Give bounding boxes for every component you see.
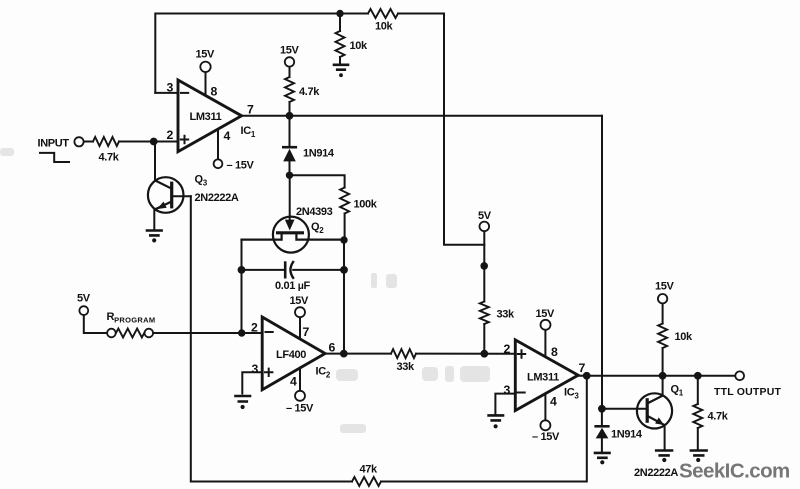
svg-text:6: 6 (329, 341, 336, 355)
terminal 5V Rprogram (79, 306, 88, 315)
input step waveform symbol (40, 153, 69, 162)
node IC3 out (583, 372, 591, 380)
node top 10k tap (336, 10, 343, 17)
resistor 4.7k input (93, 137, 119, 146)
svg-text:SeekIC.com: SeekIC.com (679, 460, 790, 483)
svg-text:2N2222A: 2N2222A (634, 467, 678, 479)
terminal Rprogram right (145, 329, 154, 338)
node Rprogram pin2 (238, 329, 245, 336)
wire Q1 collector riser (662, 376, 664, 396)
transistor Q1 2N2222A (637, 393, 672, 428)
wire right 4.7k to ground (697, 376, 699, 450)
wire IC2 pin3 to ground (242, 372, 262, 393)
svg-text:10k: 10k (675, 331, 694, 343)
IC3 pin8 supply lead (544, 330, 546, 357)
resistor 10k top horizontal (368, 9, 398, 18)
wire top 10k segment to right corner (340, 13, 444, 15)
wire Q3 base lead (172, 195, 191, 197)
plus sign IC3 (518, 350, 525, 357)
resistor 4.7k right (693, 404, 702, 428)
terminal 15V 10k right (658, 294, 667, 303)
terminal -15V IC1 (214, 159, 223, 168)
plus sign IC2 (265, 369, 272, 376)
terminal Rprogram left (107, 329, 116, 338)
resistor 33k horizontal (391, 349, 416, 358)
wire right 1N914 to ground (601, 409, 603, 452)
resistor 100k (340, 188, 349, 214)
resistor 10k right pullup (658, 324, 667, 348)
wire input to IC1 pin2 (84, 141, 178, 143)
resistor 47k bottom (352, 477, 381, 486)
wire 5V node down through 33k to pin2 node (483, 231, 485, 354)
IC1 pin4 supply lead (217, 129, 219, 159)
wire IC2 output to 33k to IC3 pin2 (325, 353, 515, 355)
svg-text:4.7k: 4.7k (99, 152, 120, 164)
svg-text:7: 7 (247, 103, 254, 117)
svg-text:– 15V: – 15V (286, 403, 314, 415)
svg-text:33k: 33k (497, 309, 516, 321)
svg-text:2: 2 (504, 342, 511, 356)
svg-text:4.7k: 4.7k (708, 411, 729, 423)
svg-text:2N4393: 2N4393 (296, 206, 333, 218)
node below diode (286, 172, 293, 179)
IC3 pin4 supply lead (544, 394, 546, 421)
resistor 33k vertical (480, 302, 489, 325)
ground Q3 (147, 231, 162, 236)
node cap left (238, 266, 246, 274)
svg-text:4: 4 (550, 395, 557, 409)
svg-text:4: 4 (290, 375, 297, 389)
ground dots (339, 73, 343, 77)
svg-text:5V: 5V (77, 293, 91, 305)
svg-text:2N2222A: 2N2222A (195, 192, 239, 204)
transistor Q3 2N2222A (148, 177, 184, 213)
minus sign IC3 (518, 392, 525, 394)
wire right 10k pullup (662, 303, 664, 375)
wire Q3 collector drop (154, 142, 156, 181)
wire diode 1N914 branch (289, 116, 291, 176)
wire 4.7k pullup branch (289, 67, 291, 116)
terminal 15V 4.7k (285, 57, 294, 66)
svg-text:LM311: LM311 (527, 372, 559, 384)
svg-text:47k: 47k (360, 464, 379, 476)
wire IC3 pin3 to ground (495, 394, 515, 414)
wire Q1 emitter to ground (664, 425, 666, 449)
node IC3 pin2 (480, 350, 488, 358)
svg-text:15V: 15V (655, 281, 675, 293)
svg-text:100k: 100k (354, 199, 378, 211)
plus sign IC1 (181, 136, 188, 143)
svg-text:RPROGRAM: RPROGRAM (107, 311, 156, 325)
IC2 pin4 supply lead (299, 368, 301, 391)
transistor Q2 2N4393 JFET (242, 217, 344, 253)
ground Q1 (656, 451, 672, 456)
minus sign IC2 (266, 331, 273, 333)
svg-text:4: 4 (224, 129, 231, 143)
svg-text:– 15V: – 15V (227, 160, 255, 172)
wire 10k shunt down (339, 14, 341, 65)
terminal 15V IC3 (541, 320, 551, 330)
svg-text:33k: 33k (397, 361, 416, 373)
op-amp U IC3 LM311 triangle (515, 340, 578, 411)
node input / pin2 (150, 138, 158, 146)
wire right-side vertical from IC1 output down to Q1 base node (601, 116, 603, 409)
svg-text:10k: 10k (375, 21, 394, 33)
wire IC3 output to TTL terminal (578, 375, 735, 377)
node Q2 drain 100k (340, 236, 347, 243)
svg-text:LM311: LM311 (190, 111, 222, 123)
IC1 pin8 supply lead (205, 72, 207, 96)
svg-text:1N914: 1N914 (611, 429, 643, 441)
node cap right (340, 266, 348, 274)
svg-text:8: 8 (551, 345, 558, 359)
svg-text:Q3: Q3 (195, 174, 208, 188)
terminal INPUT (74, 137, 83, 146)
wire top-left feedback loop (155, 14, 340, 93)
svg-text:TTL OUTPUT: TTL OUTPUT (714, 386, 782, 398)
svg-text:15V: 15V (536, 308, 556, 320)
capacitor C 0.01uF (285, 262, 293, 278)
wire diode node to 100k (290, 175, 345, 187)
node 4.7k tap (694, 372, 702, 380)
svg-text:IC1: IC1 (241, 125, 256, 139)
node IC1 out 4.7k (286, 112, 294, 120)
svg-text:Q2: Q2 (311, 221, 324, 235)
ground IC2 pin3 (236, 396, 251, 402)
svg-text:IC3: IC3 (564, 387, 579, 401)
terminal 15V IC2 (295, 307, 305, 317)
op-amp U IC1 LM311 triangle (178, 80, 242, 152)
svg-text:3: 3 (167, 81, 174, 95)
terminal TTL OUTPUT (735, 371, 744, 380)
wire IC1 output long run (242, 115, 602, 117)
wire Q2 gate (289, 175, 291, 219)
wire capacitor row (242, 269, 345, 271)
wire IC1 pin3 (155, 92, 178, 94)
node IC2 out (340, 350, 348, 358)
wire Q2 source to cap left (241, 240, 243, 270)
ground right 4.7k (691, 451, 707, 456)
ground top 10k (334, 65, 348, 70)
svg-text:7: 7 (579, 361, 586, 375)
svg-text:2: 2 (167, 128, 174, 142)
svg-text:15V: 15V (280, 45, 300, 57)
svg-text:– 15V: – 15V (532, 431, 560, 443)
wire IC3 output down and bottom feedback run (191, 196, 587, 481)
svg-text:INPUT: INPUT (38, 138, 70, 150)
wire 5V source to Rprogram (84, 315, 107, 333)
svg-text:3: 3 (504, 383, 511, 397)
IC2 pin7 supply lead (299, 317, 301, 339)
svg-text:8: 8 (211, 85, 218, 99)
svg-text:3: 3 (252, 362, 259, 376)
svg-text:0.01 μF: 0.01 μF (275, 280, 311, 292)
op-amp U IC2 LF400 triangle (262, 317, 325, 390)
wire right corner down to 5V node (444, 14, 484, 245)
resistor 10k top shunt vertical (336, 31, 345, 57)
terminal -15V IC2 (295, 391, 305, 401)
svg-text:15V: 15V (290, 295, 310, 307)
node Q1 base diode (598, 405, 606, 413)
svg-text:4.7k: 4.7k (299, 86, 320, 98)
terminal -15V IC3 (540, 420, 550, 430)
wire Q3 emitter to ground (153, 209, 155, 230)
node 5V branch (480, 262, 488, 270)
node 10k collector (659, 372, 667, 380)
svg-text:LF400: LF400 (276, 349, 306, 361)
resistor 4.7k pullup IC1 (285, 77, 294, 102)
wire Q1 base lead (602, 408, 647, 410)
terminal 5V right node (480, 222, 490, 232)
diode 1N914 top (283, 147, 296, 161)
wire 100k bottom to cap node to IC2 output (343, 214, 346, 354)
ground right 1N914 (595, 453, 610, 458)
minus sign IC1 (181, 92, 188, 94)
svg-text:5V: 5V (478, 210, 492, 222)
svg-text:1N914: 1N914 (303, 148, 335, 160)
svg-text:10k: 10k (350, 40, 369, 52)
terminal 15V IC1 (200, 62, 210, 72)
svg-text:Q1: Q1 (671, 384, 684, 398)
wire Rprogram to IC2 pin2 (153, 332, 262, 334)
ground IC3 pin3 (489, 415, 503, 420)
resistor Rprogram (116, 329, 144, 338)
svg-text:7: 7 (303, 325, 310, 339)
diode 1N914 right (596, 426, 609, 438)
svg-text:IC2: IC2 (316, 366, 331, 380)
svg-text:15V: 15V (196, 49, 216, 61)
wire cap-left down to IC2 pin2 (241, 270, 243, 333)
svg-text:2: 2 (251, 321, 258, 335)
